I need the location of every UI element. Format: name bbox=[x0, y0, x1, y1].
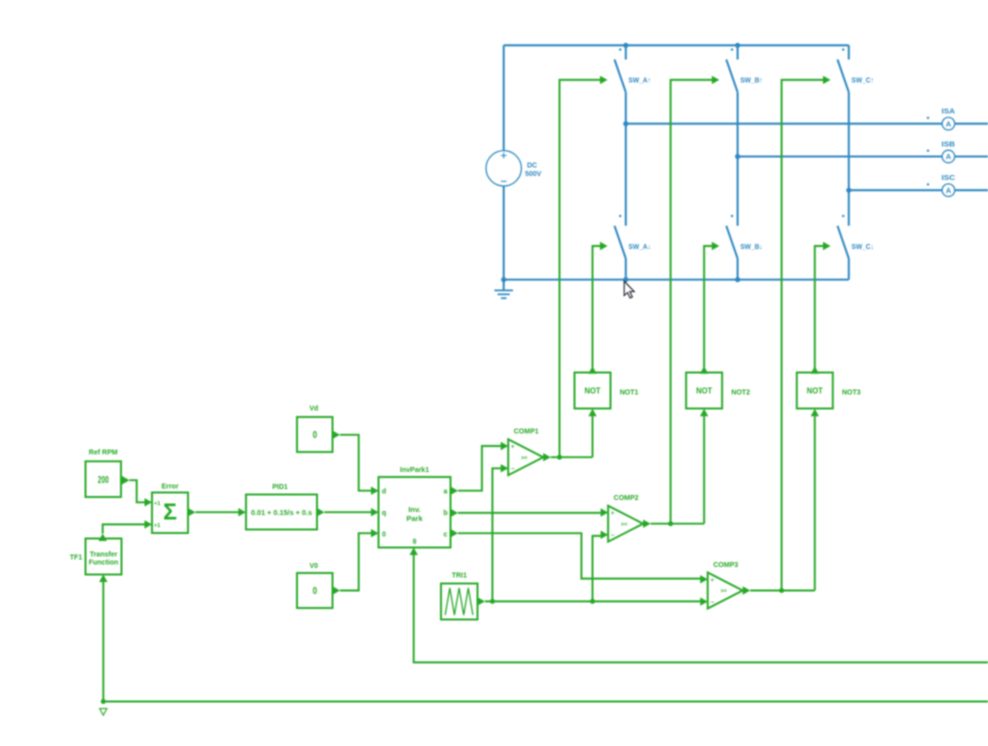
svg-text:SW_B↑: SW_B↑ bbox=[740, 76, 763, 85]
svg-text:Park: Park bbox=[406, 514, 423, 523]
svg-text:c: c bbox=[444, 531, 448, 538]
svg-text:−: − bbox=[710, 600, 714, 606]
svg-text:TRI1: TRI1 bbox=[452, 573, 467, 580]
svg-text:SW_C↑: SW_C↑ bbox=[851, 76, 874, 85]
svg-text:+: + bbox=[611, 511, 615, 517]
svg-text:NOT: NOT bbox=[807, 387, 823, 396]
svg-text:θ: θ bbox=[413, 539, 417, 546]
svg-text:ISC: ISC bbox=[942, 173, 956, 182]
svg-text:−: − bbox=[511, 467, 515, 473]
svg-text:+1: +1 bbox=[154, 501, 160, 507]
svg-text:COMP1: COMP1 bbox=[514, 429, 539, 436]
svg-text:0.01 + 0.15/s + 0.s: 0.01 + 0.15/s + 0.s bbox=[251, 510, 312, 517]
svg-text:COMP3: COMP3 bbox=[713, 562, 738, 569]
svg-text:A: A bbox=[946, 186, 952, 195]
svg-text:Function: Function bbox=[89, 559, 119, 566]
svg-text:NOT1: NOT1 bbox=[620, 389, 639, 396]
svg-text:DC: DC bbox=[527, 163, 537, 170]
svg-text:PID1: PID1 bbox=[272, 484, 288, 491]
svg-text:InvPark1: InvPark1 bbox=[400, 467, 429, 474]
svg-text:−: − bbox=[611, 533, 615, 539]
svg-text:A: A bbox=[946, 152, 952, 161]
svg-text:200: 200 bbox=[98, 475, 109, 486]
svg-text:TF1: TF1 bbox=[70, 554, 83, 561]
svg-text:ISA: ISA bbox=[942, 107, 956, 116]
svg-text:NOT: NOT bbox=[696, 387, 712, 396]
svg-text:q: q bbox=[382, 510, 386, 517]
svg-text:NOT3: NOT3 bbox=[842, 389, 861, 396]
svg-text:SW_B↓: SW_B↓ bbox=[740, 242, 763, 251]
svg-text:Σ: Σ bbox=[163, 499, 177, 525]
svg-text:COMP2: COMP2 bbox=[614, 495, 639, 502]
svg-text:>=: >= bbox=[720, 589, 726, 595]
svg-text:+1: +1 bbox=[154, 523, 160, 529]
svg-text:0: 0 bbox=[313, 430, 318, 441]
svg-text:SW_C↓: SW_C↓ bbox=[851, 242, 874, 251]
svg-text:+: + bbox=[710, 578, 714, 584]
svg-text:NOT: NOT bbox=[585, 387, 601, 396]
svg-text:b: b bbox=[443, 510, 447, 517]
svg-text:Error: Error bbox=[161, 484, 178, 491]
svg-text:>=: >= bbox=[521, 455, 527, 461]
svg-text:d: d bbox=[382, 489, 386, 496]
svg-text:NOT2: NOT2 bbox=[731, 389, 750, 396]
svg-text:a: a bbox=[444, 489, 448, 496]
svg-text:SW_A↑: SW_A↑ bbox=[628, 76, 651, 85]
svg-text:Vd: Vd bbox=[309, 406, 318, 413]
svg-text:A: A bbox=[946, 119, 952, 128]
svg-text:SW_A↓: SW_A↓ bbox=[628, 242, 651, 251]
svg-text:500V: 500V bbox=[525, 171, 542, 178]
svg-text:Ref RPM: Ref RPM bbox=[89, 450, 118, 457]
svg-text:>=: >= bbox=[621, 522, 627, 528]
svg-text:0: 0 bbox=[313, 586, 318, 597]
svg-text:0: 0 bbox=[382, 531, 386, 538]
svg-text:ISB: ISB bbox=[942, 140, 956, 149]
svg-text:V0: V0 bbox=[310, 563, 319, 570]
svg-text:Transfer: Transfer bbox=[90, 551, 118, 558]
svg-text:+: + bbox=[511, 445, 515, 451]
